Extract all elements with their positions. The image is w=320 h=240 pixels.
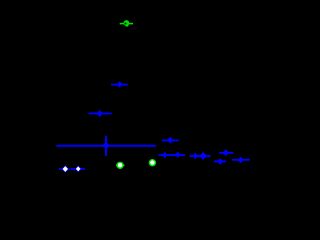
blue point B5 diamond [162, 152, 168, 158]
blue point B6 diamond [175, 152, 181, 158]
green point G1 body [124, 20, 130, 26]
blue point B8 diamond [199, 152, 207, 160]
blue point B9 diamond [223, 149, 229, 156]
blue point B1 diamond [117, 81, 123, 87]
blue point B7 diamond [193, 153, 198, 160]
blue point B5 error bar [159, 154, 173, 156]
blue point B3 vertical error bar [105, 136, 107, 156]
blue point B10 diamond [217, 158, 223, 164]
green circle G2 [116, 162, 123, 169]
blue point B4 error bar [162, 139, 179, 141]
blue point B8 error bar [198, 155, 211, 157]
blue point B2 error bar [89, 112, 112, 114]
blue point B11 error bar [232, 159, 250, 161]
open blue diamond W2 [75, 165, 81, 172]
green circle G3 [149, 159, 156, 166]
blue point B3 diamond [102, 142, 109, 149]
open blue diamond W1 error bar [59, 168, 70, 170]
blue point B7 error bar [190, 155, 199, 157]
green point G1 open center [124, 23, 126, 25]
blue point B9 error bar [219, 152, 233, 154]
green circle G2 error bar [116, 164, 125, 166]
open blue diamond W2 error bar [71, 168, 85, 170]
open blue diamond W1 [62, 165, 70, 172]
green point G1 error bar [120, 23, 133, 25]
blue point B11 diamond [238, 157, 244, 164]
blue point B3 horizontal error bar [57, 145, 156, 147]
blue point B6 error bar [171, 154, 185, 156]
blue point B4 diamond [167, 137, 173, 144]
blue point B2 diamond [96, 110, 102, 117]
blue point B10 error bar [214, 160, 226, 162]
blue point B1 error bar [111, 84, 128, 86]
